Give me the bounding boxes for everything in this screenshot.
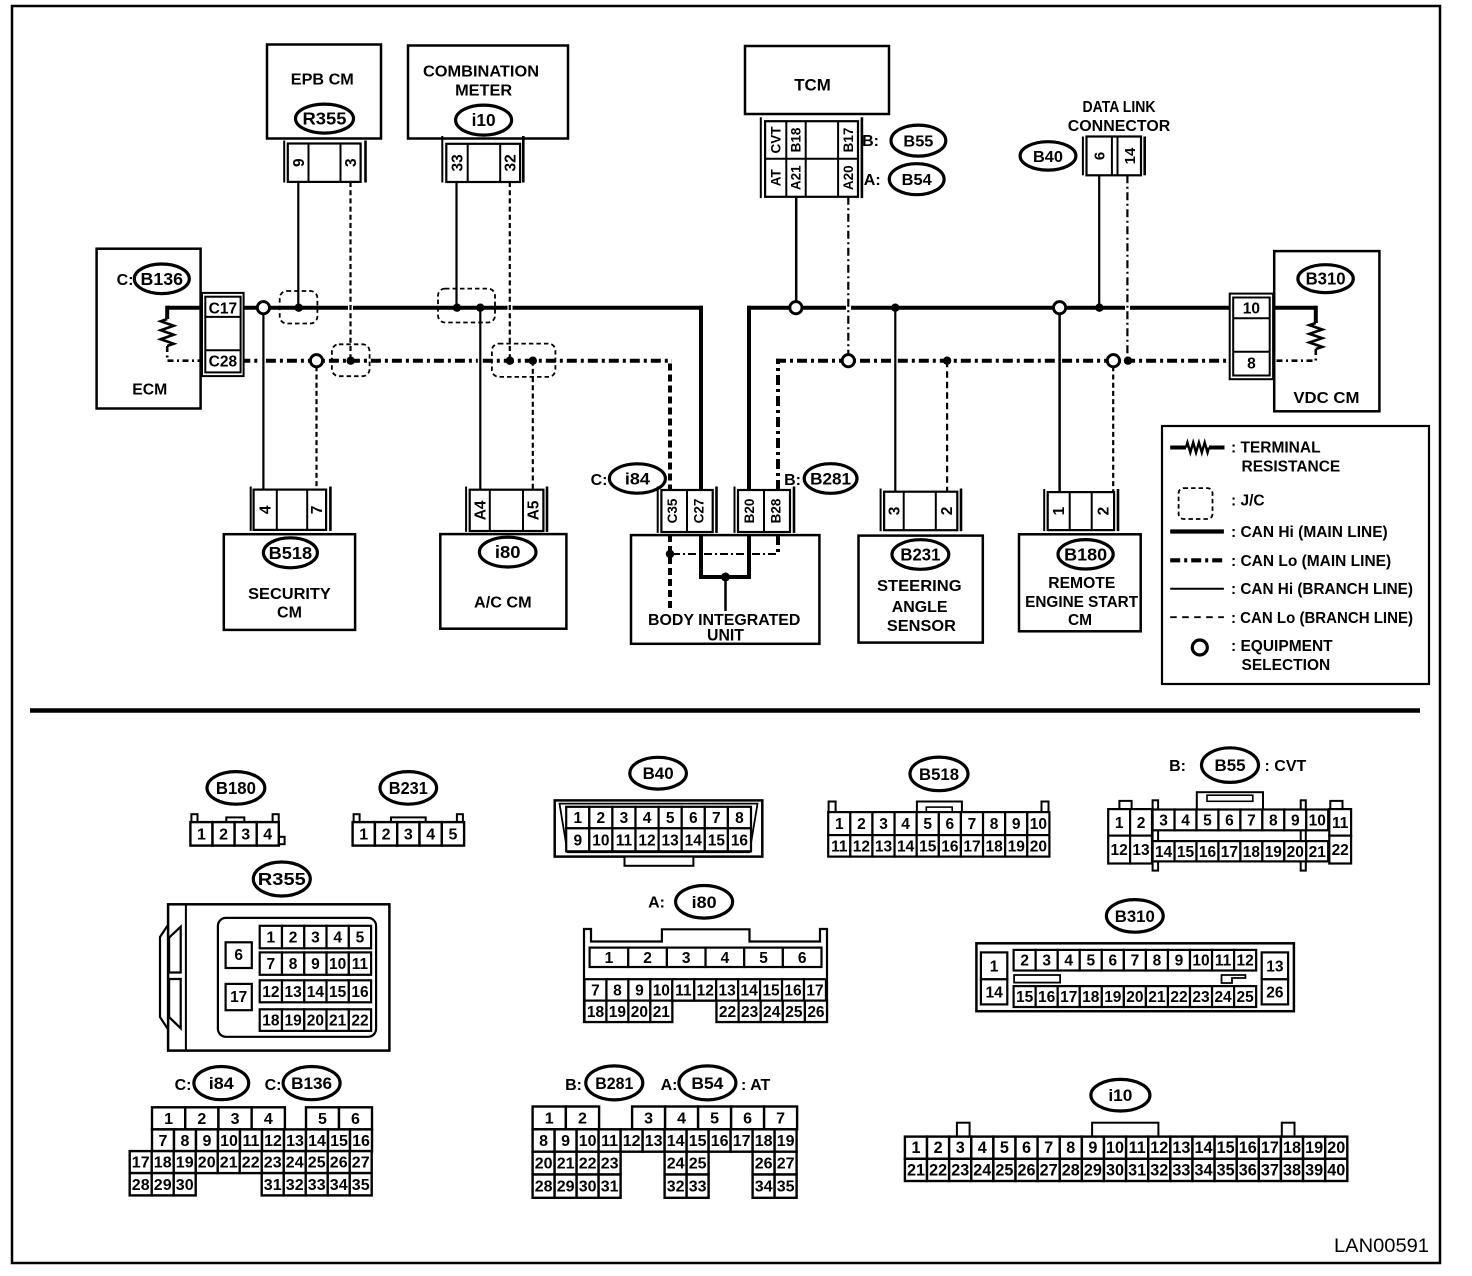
svg-text:8: 8 <box>181 1133 190 1150</box>
node: A/C CM pin A5 junction <box>529 357 537 365</box>
svg-text:1: 1 <box>911 1139 920 1157</box>
svg-text:17: 17 <box>132 1155 150 1172</box>
node: steering angle sensor pin 3 junction <box>891 304 899 312</box>
svg-text:8: 8 <box>1066 1139 1075 1157</box>
i84/B136 pins 1-4 <box>152 1107 185 1129</box>
connector oval B231 on steering angle sensor <box>892 540 949 570</box>
B180 housing <box>191 814 197 823</box>
svg-text:23: 23 <box>741 1004 759 1021</box>
svg-text:11: 11 <box>1332 815 1349 832</box>
svg-text:22: 22 <box>1332 842 1349 859</box>
block: VDC CM <box>1274 251 1379 411</box>
svg-text:19: 19 <box>176 1155 194 1172</box>
svg-text:21: 21 <box>220 1155 238 1172</box>
svg-text:34: 34 <box>755 1179 773 1196</box>
svg-text:11: 11 <box>1215 953 1232 970</box>
svg-text:35: 35 <box>777 1179 795 1196</box>
R355 pins 12-16 <box>260 980 282 1002</box>
svg-text:A21: A21 <box>789 165 804 190</box>
svg-text:6: 6 <box>1022 1139 1031 1157</box>
svg-text:9: 9 <box>1175 953 1184 970</box>
svg-text:A20: A20 <box>841 165 856 190</box>
svg-text:19: 19 <box>1305 1139 1323 1157</box>
svg-text:R355: R355 <box>258 869 306 889</box>
svg-text:1: 1 <box>359 826 368 843</box>
wire: Remote engine start CM pin 2 CAN Lo branch line <box>1112 366 1114 492</box>
B55 pins 14-21 <box>1153 841 1175 861</box>
wire: CAN Lo main line inside Body Integrated Unit (C35 side, stub) <box>668 535 672 608</box>
i80 pins 18-21 <box>585 1001 607 1022</box>
svg-text:7: 7 <box>267 956 276 973</box>
svg-text:18: 18 <box>755 1133 773 1150</box>
svg-text:8: 8 <box>1247 356 1256 373</box>
svg-text:B136: B136 <box>141 269 184 289</box>
wire: A/C CM pin A4 CAN Hi branch line <box>479 308 481 490</box>
svg-text:2: 2 <box>1095 507 1112 516</box>
svg-text:25: 25 <box>785 1004 803 1021</box>
node: EPB pin 9 junction <box>295 304 303 312</box>
svg-text:B40: B40 <box>643 764 674 783</box>
B518 pins 11-20 <box>828 835 850 857</box>
svg-text:1: 1 <box>1115 815 1124 832</box>
svg-text:10: 10 <box>220 1133 238 1150</box>
svg-text:21: 21 <box>1309 844 1327 861</box>
svg-text:2: 2 <box>1137 815 1146 832</box>
svg-text:5: 5 <box>923 816 932 833</box>
wire: EPB CM pin 3 CAN Lo branch line <box>349 182 351 361</box>
svg-text:31: 31 <box>601 1179 619 1196</box>
svg-text:13: 13 <box>645 1133 663 1150</box>
svg-text:B54: B54 <box>691 1075 724 1093</box>
svg-text:14: 14 <box>1155 844 1173 861</box>
connector view B40 (data link connector) <box>630 757 687 789</box>
svg-text:2: 2 <box>597 810 606 827</box>
svg-text:1: 1 <box>197 826 206 843</box>
svg-text:3: 3 <box>311 930 320 947</box>
svg-text:15: 15 <box>1177 844 1195 861</box>
block: COMBINATION METER <box>408 46 568 139</box>
svg-text:21: 21 <box>907 1161 925 1179</box>
block: TCM <box>745 46 889 114</box>
svg-text:14: 14 <box>1195 1139 1213 1157</box>
B281/B54 pins 34-35 <box>753 1175 775 1198</box>
i10 housing tabs <box>957 1123 970 1137</box>
svg-text:18: 18 <box>1243 844 1261 861</box>
svg-text:6: 6 <box>1092 152 1109 160</box>
svg-text:31: 31 <box>264 1177 282 1194</box>
wire: CAN Lo main line vertical drop into C35 <box>668 364 672 491</box>
wire: Security CM pin 7 CAN Lo branch line <box>315 366 317 489</box>
connector view B231 (steering angle sensor) <box>380 772 437 805</box>
svg-text:i80: i80 <box>495 542 521 562</box>
B281/B54 pins 28-31 <box>533 1175 555 1198</box>
svg-text:B54: B54 <box>902 172 932 189</box>
node: combination meter pin 33 junction <box>453 304 461 312</box>
wire: CAN Lo main line (Body Integrated Unit B28 to VDC CM pin 8) <box>776 359 893 363</box>
svg-text:R355: R355 <box>303 109 347 129</box>
svg-text:5: 5 <box>356 930 365 947</box>
B180 pins 1-4 <box>190 822 212 846</box>
svg-text:12: 12 <box>264 1133 282 1150</box>
svg-text:7: 7 <box>1131 953 1140 970</box>
terminal resistor inside VDC CM <box>1273 306 1316 310</box>
svg-text:7: 7 <box>1247 812 1256 829</box>
svg-text:26: 26 <box>1266 984 1284 1001</box>
wire: Remote engine start CM pin 1 CAN Hi branch line <box>1058 313 1061 492</box>
svg-text:3: 3 <box>644 1110 653 1127</box>
svg-text:29: 29 <box>1084 1161 1102 1179</box>
connector block pins 3/2 of steering angle sensor (B231) <box>880 489 882 532</box>
svg-text:B:: B: <box>1169 758 1186 775</box>
svg-text:B:: B: <box>565 1077 582 1094</box>
svg-text:9: 9 <box>561 1133 570 1150</box>
equipment selection circle on CAN Lo (remote engine start branch) <box>1107 355 1119 367</box>
svg-text:30: 30 <box>1106 1161 1124 1179</box>
equipment selection circle on CAN Lo (TCM branch) <box>842 355 854 367</box>
wire: CAN Hi stub into Body Integrated Unit circuitry <box>724 577 727 611</box>
svg-text:23: 23 <box>601 1156 619 1173</box>
node: CAN Lo junction inside Body Integrated Unit <box>666 550 674 558</box>
B55 pin 22 <box>1329 836 1351 864</box>
svg-text:2: 2 <box>857 816 866 833</box>
svg-text:28: 28 <box>132 1177 150 1194</box>
svg-text:B281: B281 <box>595 1075 633 1093</box>
svg-text:22: 22 <box>579 1156 597 1173</box>
B518 housing <box>829 802 836 813</box>
node: CAN Hi junction inside Body Integrated Unit <box>721 573 730 582</box>
svg-text:18: 18 <box>1082 989 1100 1006</box>
svg-text:18: 18 <box>154 1155 172 1172</box>
svg-text:C27: C27 <box>692 499 707 524</box>
svg-text:2: 2 <box>289 930 298 947</box>
svg-text:6: 6 <box>1225 812 1234 829</box>
svg-text:B55: B55 <box>903 134 933 151</box>
svg-text:18: 18 <box>1283 1139 1301 1157</box>
connector block pins 6/14 of data link connector (B40) <box>1082 137 1084 176</box>
svg-text:20: 20 <box>1287 844 1304 861</box>
svg-text:4: 4 <box>721 950 730 967</box>
B310 pins 2-12 <box>1014 950 1036 971</box>
svg-text:9: 9 <box>573 832 582 849</box>
svg-text:32: 32 <box>667 1179 685 1196</box>
svg-text:22: 22 <box>929 1161 947 1179</box>
svg-text:B40: B40 <box>1033 149 1063 166</box>
svg-text:B231: B231 <box>389 778 428 798</box>
connector block C17/C28 on ECM <box>202 293 244 376</box>
svg-text:13: 13 <box>1266 958 1284 975</box>
svg-text:29: 29 <box>154 1177 172 1194</box>
svg-text:13: 13 <box>719 982 737 999</box>
svg-text:11: 11 <box>352 956 369 973</box>
svg-text:A5: A5 <box>526 500 543 520</box>
svg-text:6: 6 <box>689 810 698 827</box>
svg-text:19: 19 <box>1104 989 1122 1006</box>
svg-text:10: 10 <box>1106 1139 1124 1157</box>
svg-text:17: 17 <box>230 989 247 1006</box>
svg-text:C:: C: <box>591 472 608 489</box>
svg-text:CONNECTOR: CONNECTOR <box>1068 118 1171 135</box>
svg-text:3: 3 <box>1042 953 1051 970</box>
B310 pins 15-25 <box>1014 986 1036 1007</box>
wire: TCM pin A21/B18 CAN Hi branch line <box>795 197 798 302</box>
svg-text:22: 22 <box>351 1013 368 1030</box>
B231 pins 1-5 <box>353 822 375 846</box>
svg-text:12: 12 <box>1111 842 1128 859</box>
svg-text:20: 20 <box>535 1156 553 1173</box>
node: steering angle sensor pin 2 junction <box>943 357 951 365</box>
i80 pins 1-6 <box>590 948 629 967</box>
junction box J/C on CAN Hi (combination meter / A/C CM branch) <box>438 289 495 323</box>
wire: TCM pin A20/B17 CAN Lo branch line <box>847 197 849 355</box>
block: SECURITY CM <box>224 534 355 630</box>
svg-text:16: 16 <box>711 1133 729 1150</box>
svg-text:3: 3 <box>620 810 629 827</box>
R355 pins 18-22 <box>260 1009 282 1031</box>
svg-text:4: 4 <box>426 826 435 843</box>
svg-text:13: 13 <box>662 832 680 849</box>
wire: Data link connector pin 14 CAN Lo branch line <box>1126 175 1128 360</box>
svg-text:8: 8 <box>735 810 744 827</box>
svg-text:16: 16 <box>731 832 749 849</box>
R355 pin 17 <box>226 984 252 1010</box>
svg-text:8: 8 <box>1269 812 1278 829</box>
svg-text:26: 26 <box>1018 1161 1036 1179</box>
svg-text:10: 10 <box>579 1133 597 1150</box>
svg-text:37: 37 <box>1261 1161 1279 1179</box>
svg-text:4: 4 <box>1064 953 1073 970</box>
svg-text:i80: i80 <box>692 893 717 912</box>
svg-text:21: 21 <box>329 1013 347 1030</box>
svg-text:5: 5 <box>666 810 675 827</box>
block: A/C CM <box>440 534 566 629</box>
svg-text:17: 17 <box>963 838 980 855</box>
B55 pins 3-10 <box>1153 810 1175 831</box>
svg-text:22: 22 <box>1170 989 1187 1006</box>
svg-text:35: 35 <box>352 1177 370 1194</box>
node: EPB pin 3 junction <box>347 357 355 365</box>
block: ECM <box>97 249 201 409</box>
connector view B310 (VDC CM) <box>1106 900 1163 933</box>
B281/B54 pins 3-7 <box>632 1107 665 1130</box>
svg-text:16: 16 <box>784 982 802 999</box>
B281/B54 pins 26-27 <box>753 1152 775 1175</box>
svg-text:16: 16 <box>352 1133 370 1150</box>
svg-text:4: 4 <box>263 826 272 843</box>
svg-text:7: 7 <box>309 505 326 514</box>
svg-text:SENSOR: SENSOR <box>887 618 956 635</box>
wire: CAN Lo main line (ECM C28 to Body Integrated Unit C35) <box>240 359 261 363</box>
svg-text:12: 12 <box>1237 953 1254 970</box>
svg-text:AT: AT <box>769 168 784 186</box>
svg-text:6: 6 <box>351 1111 360 1128</box>
wire: Data link connector pin 6 CAN Hi branch line <box>1098 175 1100 307</box>
svg-text:10: 10 <box>329 956 346 973</box>
svg-text:B310: B310 <box>1115 907 1155 926</box>
svg-text:CM: CM <box>1068 612 1092 629</box>
svg-text:: CAN Lo (MAIN LINE): : CAN Lo (MAIN LINE) <box>1231 553 1391 570</box>
svg-text:19: 19 <box>1265 844 1283 861</box>
svg-text:CM: CM <box>277 605 302 622</box>
connector block pins 33/32 of combination meter (i10) <box>441 136 443 183</box>
svg-text:: TERMINAL: : TERMINAL <box>1231 439 1321 456</box>
wire: A/C CM pin A5 CAN Lo branch line <box>532 361 534 490</box>
svg-text:B281: B281 <box>810 471 851 489</box>
wire: CAN Lo main line riser from B28 <box>776 535 780 554</box>
svg-text:18: 18 <box>985 838 1003 855</box>
svg-text:34: 34 <box>1195 1161 1213 1179</box>
svg-text:21: 21 <box>557 1156 575 1173</box>
svg-text:B136: B136 <box>291 1075 332 1093</box>
svg-text:9: 9 <box>1012 816 1021 833</box>
i80 pins 7-17 <box>585 979 607 1000</box>
svg-text:19: 19 <box>777 1133 795 1150</box>
wire: CAN Hi main line U-bottom inside Body Integrated Unit <box>699 575 751 579</box>
i80 pins 22-26 <box>717 1001 739 1022</box>
svg-text:39: 39 <box>1305 1161 1323 1179</box>
B310 pin 14 <box>981 979 1007 1004</box>
svg-text:2: 2 <box>197 1111 206 1128</box>
svg-text:26: 26 <box>330 1155 348 1172</box>
svg-text:16: 16 <box>351 984 369 1001</box>
svg-text:A4: A4 <box>473 500 490 520</box>
svg-text:A/C CM: A/C CM <box>474 595 532 612</box>
svg-text:33: 33 <box>450 154 467 172</box>
svg-text:11: 11 <box>831 838 848 855</box>
svg-text:11: 11 <box>601 1133 618 1150</box>
svg-text:: AT: : AT <box>741 1077 771 1094</box>
svg-text:2: 2 <box>643 950 652 967</box>
svg-text:13: 13 <box>284 984 302 1001</box>
svg-text:10: 10 <box>1243 301 1260 318</box>
svg-text:B:: B: <box>784 472 801 489</box>
wire: Security CM pin 4 CAN Hi branch line <box>262 313 264 489</box>
connector block pins 1/2 of remote engine start CM (B180) <box>1043 489 1045 531</box>
svg-text:REMOTE: REMOTE <box>1048 575 1115 592</box>
svg-text:38: 38 <box>1283 1161 1301 1179</box>
svg-text:27: 27 <box>777 1156 795 1173</box>
svg-text:1: 1 <box>835 816 844 833</box>
svg-text:: J/C: : J/C <box>1231 493 1265 510</box>
i84/B136 pins 7-16 <box>152 1129 174 1151</box>
svg-text:CVT: CVT <box>769 126 784 154</box>
svg-text:3: 3 <box>879 816 888 833</box>
B518 pins 1-10 <box>828 812 850 835</box>
svg-text:3: 3 <box>343 158 360 167</box>
svg-text:VDC CM: VDC CM <box>1293 390 1359 407</box>
i84/B136 pins 31-35 <box>262 1173 284 1195</box>
connector oval i80 on A/C CM <box>479 537 536 567</box>
B281/B54 pins 32-33 <box>665 1175 687 1198</box>
svg-text:8: 8 <box>539 1133 548 1150</box>
svg-text:6: 6 <box>234 947 243 964</box>
equipment selection circle on CAN Hi (security CM branch) <box>257 302 269 314</box>
svg-text:TCM: TCM <box>794 77 831 95</box>
svg-text:2: 2 <box>1020 953 1029 970</box>
B40 pins 1-8 <box>566 807 589 829</box>
svg-text:16: 16 <box>941 838 959 855</box>
svg-text:15: 15 <box>708 832 726 849</box>
connector block pins 9/3 of EPB CM (R355) <box>283 141 285 183</box>
svg-text:2: 2 <box>939 507 956 516</box>
wire: CAN Hi main line riser from B20 <box>747 535 751 579</box>
junction box J/C on CAN Lo (EPB CM branch) <box>332 344 370 376</box>
svg-text:METER: METER <box>455 83 512 100</box>
wire: Combination meter pin 32 CAN Lo branch line <box>509 182 511 361</box>
svg-text:7: 7 <box>968 816 977 833</box>
svg-text:14: 14 <box>1122 147 1139 164</box>
B281/B54 pins 8-19 <box>533 1129 555 1151</box>
node: combination meter pin 32 junction <box>506 357 514 365</box>
connector view B180 (remote engine start CM) <box>207 772 265 805</box>
svg-text:17: 17 <box>1060 989 1077 1006</box>
equipment selection circle on CAN Lo (security CM branch) <box>310 355 322 367</box>
svg-text:: CAN Hi (MAIN LINE): : CAN Hi (MAIN LINE) <box>1231 524 1388 541</box>
svg-text:26: 26 <box>807 1004 825 1021</box>
B310 pin 13 <box>1262 952 1288 979</box>
svg-text:11: 11 <box>1129 1139 1146 1157</box>
svg-text:9: 9 <box>1291 812 1300 829</box>
svg-text:7: 7 <box>591 982 600 999</box>
svg-text:20: 20 <box>1126 989 1143 1006</box>
svg-text:14: 14 <box>307 984 325 1001</box>
B281/B54 pins 24-25 <box>665 1152 687 1175</box>
svg-text:13: 13 <box>1132 842 1150 859</box>
svg-text:33: 33 <box>689 1179 707 1196</box>
svg-text:EPB CM: EPB CM <box>291 72 354 89</box>
svg-text:27: 27 <box>352 1155 370 1172</box>
svg-text:15: 15 <box>919 838 937 855</box>
B310 pin 1 <box>981 952 1007 979</box>
svg-text:A:: A: <box>661 1077 678 1094</box>
svg-text:32: 32 <box>1150 1161 1168 1179</box>
B310 pin 26 <box>1262 979 1288 1004</box>
svg-text:23: 23 <box>264 1155 282 1172</box>
svg-text:10: 10 <box>653 982 670 999</box>
svg-text:21: 21 <box>653 1004 671 1021</box>
svg-text:4: 4 <box>264 1111 273 1128</box>
connector block pins 4/7 of security CM (B518) <box>250 487 252 531</box>
svg-text:3: 3 <box>956 1139 965 1157</box>
svg-text:26: 26 <box>755 1156 773 1173</box>
svg-text:33: 33 <box>1172 1161 1190 1179</box>
equipment selection circle on CAN Hi (TCM branch) <box>790 302 802 314</box>
svg-text:12: 12 <box>853 838 870 855</box>
B55 pin 11 <box>1329 809 1351 836</box>
i84/B136 pins 17-27 <box>130 1151 152 1173</box>
svg-text:17: 17 <box>1221 844 1238 861</box>
svg-text:17: 17 <box>733 1133 751 1150</box>
B55 pins 12-13 <box>1108 836 1130 864</box>
svg-text:1: 1 <box>1051 506 1068 515</box>
svg-text:C:: C: <box>265 1077 282 1094</box>
svg-text:6: 6 <box>946 816 955 833</box>
svg-text:34: 34 <box>330 1177 348 1194</box>
svg-text:C35: C35 <box>665 498 680 523</box>
svg-text:6: 6 <box>798 950 807 967</box>
R355 pins 7-11 <box>260 952 282 974</box>
svg-text:i10: i10 <box>1108 1086 1132 1105</box>
svg-text:13: 13 <box>875 838 893 855</box>
svg-text:12: 12 <box>262 984 279 1001</box>
equipment selection circle on CAN Hi (remote engine start branch) <box>1054 302 1066 314</box>
svg-text:10: 10 <box>1192 953 1209 970</box>
svg-text:15: 15 <box>330 1133 348 1150</box>
svg-text:B18: B18 <box>789 127 804 152</box>
svg-text:20: 20 <box>307 1013 324 1030</box>
svg-text:21: 21 <box>1148 989 1166 1006</box>
svg-text:B180: B180 <box>216 778 256 798</box>
svg-text:4: 4 <box>901 816 910 833</box>
